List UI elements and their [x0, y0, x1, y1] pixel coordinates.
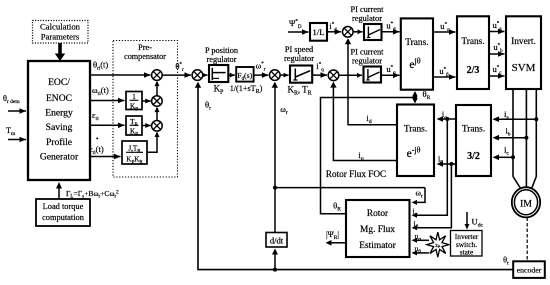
svg-text:Saving: Saving: [46, 122, 73, 133]
svg-text:3/2: 3/2: [467, 151, 480, 162]
phase wire a (SVM to motor): [513, 89, 520, 188]
block Inverter SVM: [506, 16, 541, 89]
junction dot omega_r: [273, 186, 277, 190]
svg-text:IM: IM: [520, 199, 532, 210]
wire omega*_r Fd to speed summer: [254, 61, 269, 78]
svg-text:Invert.: Invert.: [511, 37, 536, 47]
svg-text:P position: P position: [205, 46, 239, 55]
block Fd(s) 1/(1+sTr): [228, 67, 262, 95]
box Calculation Parameters: [33, 21, 89, 44]
summer Sb: [152, 121, 163, 132]
svg-text:encoder: encoder: [517, 266, 542, 275]
summer speed loop: [270, 70, 281, 81]
wire 1/Kp to summer Sa: [142, 99, 151, 104]
input theta_r_dem: [3, 94, 26, 114]
summer S1: [152, 70, 163, 81]
summer d current loop: [343, 27, 354, 38]
wire summer Sb to summer Sa: [155, 107, 160, 121]
svg-text:Trans.: Trans.: [462, 125, 485, 135]
svg-text:Pre-: Pre-: [138, 43, 152, 52]
wire i_alpha tap into estimator: [412, 119, 448, 218]
svg-text:d/dt: d/dt: [270, 236, 284, 246]
svg-text:Load torque: Load torque: [43, 202, 84, 211]
switch table star symbol: [427, 232, 449, 257]
label Gamma_L load torque formula: [66, 189, 119, 200]
thick arrow Calculation Parameters to EOC generator: [55, 43, 65, 61]
summer position loop: [192, 70, 203, 81]
phase wire b: [525, 89, 527, 188]
input Psi*_D: [288, 18, 309, 35]
gain block JrTr/KpKr: [122, 141, 147, 166]
label PI speed regulator: [284, 45, 314, 63]
wire u*_b to inverter: [489, 42, 505, 57]
svg-text:PI speed: PI speed: [285, 45, 314, 54]
phase wire c: [532, 89, 536, 188]
wire i*_d 1/L to d current summer: [327, 21, 341, 35]
wire u_alpha from switch-state star into estimator: [412, 232, 430, 243]
dashed box Pre-compensator: [113, 41, 178, 178]
label theta_r at position summer: [205, 100, 211, 112]
wire omega_r feedback up to speed summer: [272, 82, 288, 188]
wire i_d feedback to d summer: [345, 38, 397, 125]
svg-text:PI current: PI current: [351, 5, 385, 14]
block Inverter switch state: [451, 231, 483, 257]
block PI current regulator d: [353, 24, 381, 40]
block encoder: [513, 261, 545, 278]
svg-text:Energy: Energy: [45, 108, 73, 119]
svg-text:Trans.: Trans.: [405, 38, 428, 48]
wire eps-dot_ri(t) EOC to gain JrTr/KpKr: [89, 135, 121, 159]
svg-text:Profile: Profile: [46, 137, 72, 148]
input T_m: [6, 126, 26, 142]
wire i_q feedback to q summer: [330, 82, 397, 162]
wire theta_r encoder feedback bottom line: [195, 82, 513, 270]
svg-text:EOC/: EOC/: [48, 77, 70, 88]
svg-text:compensator: compensator: [124, 52, 166, 61]
svg-text:Trans.: Trans.: [404, 125, 427, 135]
wire summer Sa to summer S1: [155, 81, 160, 96]
summer q current loop: [328, 70, 339, 81]
wire i_beta tap into estimator: [412, 164, 452, 230]
wire u*_a to inverter: [489, 20, 505, 34]
block P position regulator Kp: [203, 65, 229, 96]
wire omega_ri(t) EOC to gain 1/Kp: [90, 85, 125, 103]
svg-text:regulator: regulator: [352, 57, 382, 66]
block Trans e^jtheta: [401, 18, 433, 89]
block PI speed regulator Kr Tr: [280, 66, 312, 97]
label P position regulator: [205, 46, 239, 64]
svg-text:2/3: 2/3: [467, 65, 480, 76]
gain block Tr/Kp: [126, 116, 142, 138]
wire Tr/Kp to summer Sb: [142, 123, 151, 128]
svg-text:Rotor: Rotor: [367, 209, 389, 219]
wire i_b tap to Trans 3/2: [493, 127, 529, 141]
wire i_a tap to Trans 3/2: [493, 110, 539, 122]
wire theta_R from estimator up to transforms: [321, 98, 414, 214]
wire eps_ri EOC to gain Tr/Kp: [90, 110, 125, 128]
svg-text:Mg. Flux: Mg. Flux: [360, 225, 395, 235]
svg-text:Generator: Generator: [40, 152, 79, 163]
wire u*_d to Trans e^jtheta: [382, 21, 400, 35]
wire theta_ri(t) EOC to summer S1: [90, 60, 151, 78]
svg-text:regulator: regulator: [352, 14, 382, 23]
block Trans 3/2: [456, 105, 491, 176]
block d/dt: [266, 233, 287, 248]
svg-text:Parameters: Parameters: [41, 32, 80, 42]
svg-text:regulator: regulator: [207, 55, 237, 64]
arrow load torque computation to EOC generator: [56, 182, 62, 199]
svg-text:Estimator: Estimator: [359, 241, 396, 251]
svg-text:ENOC: ENOC: [46, 93, 72, 104]
block Trans e^-jtheta: [397, 105, 434, 177]
dash-dot shaft link motor to encoder: [526, 218, 528, 262]
svg-text:1/L: 1/L: [313, 27, 325, 37]
block Trans 2/3: [457, 16, 489, 89]
label PI current regulator (q): [351, 48, 385, 66]
wire i_alpha Trans 3/2 to Trans e^-jtheta: [437, 110, 456, 122]
block Rotor Mg. Flux Estimator: [346, 200, 410, 257]
block EOC/ENOC Energy Saving Profile Generator: [28, 61, 90, 180]
wire i*_q speed regulator to q current summer: [312, 61, 327, 78]
wire u_beta from switch-state star into estimator: [412, 244, 430, 255]
label Rotor Flux FOC: [326, 169, 386, 179]
svg-text:computation: computation: [42, 213, 85, 222]
gain block 1/Kp: [126, 92, 142, 113]
svg-text:Rotor Flux FOC: Rotor Flux FOC: [326, 169, 386, 179]
wire i_beta Trans 3/2 to Trans e^-jtheta: [437, 155, 456, 167]
wire omega_r node to estimator (horizontal): [275, 187, 425, 189]
wire up into d/dt: [272, 249, 278, 270]
theta_R node and arrows into e^jtheta and e^-jtheta: [412, 89, 430, 104]
svg-text:PI current: PI current: [351, 48, 385, 57]
summer Sa: [152, 96, 163, 107]
wire u*_alpha Trans ejtheta to Trans 2/3: [433, 21, 456, 35]
wire d/dt to omega_r node: [274, 188, 276, 233]
wire JrTr/KpKr to summer Sb from below: [147, 132, 160, 153]
wire i_c tap to Trans 3/2: [493, 146, 516, 161]
svg-text:SVM: SVM: [512, 62, 536, 74]
svg-text:ΓL=Γs+Bωr+Cωr2: ΓL=Γs+Bωr+Cωr2: [66, 189, 119, 200]
wire theta*_r S1 to position summer: [162, 61, 191, 78]
input U_dc arrow down: [465, 212, 484, 230]
junction dot theta_r to d/dt: [273, 268, 277, 272]
box Load torque computation: [36, 199, 90, 226]
svg-text:1: 1: [132, 93, 136, 101]
label PI current regulator (d): [351, 5, 385, 23]
wire u*_c to inverter: [489, 64, 505, 79]
svg-text:Calculation: Calculation: [40, 22, 81, 32]
svg-text:regulator: regulator: [284, 54, 314, 63]
wire u*_beta Trans ejtheta to Trans 2/3: [433, 66, 456, 80]
wire u*_q to Trans e^jtheta: [381, 64, 400, 78]
svg-text:state: state: [460, 248, 474, 257]
svg-text:Σμ: Σμ: [435, 243, 441, 248]
induction motor IM: [512, 187, 540, 217]
output |Psi_R| arrow: [326, 230, 347, 246]
svg-text:Trans.: Trans.: [461, 37, 484, 47]
block 1/L: [310, 23, 327, 41]
block PI current regulator q: [339, 67, 381, 83]
wire omega_r into estimator: [412, 188, 426, 205]
